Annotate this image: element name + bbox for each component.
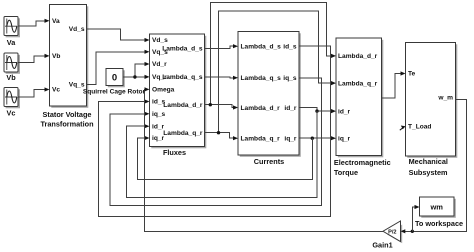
svg-text:wm: wm — [429, 203, 443, 212]
svg-text:Va: Va — [52, 18, 60, 25]
wire constant to Vd_r / Vq_r — [123, 64, 145, 77]
source block Va — [4, 17, 20, 47]
feedback wire id_s — [98, 46, 330, 216]
svg-text:Vb: Vb — [6, 73, 16, 82]
block wm To workspace — [415, 197, 463, 228]
block Fluxes — [150, 34, 207, 157]
wire w_m to gain and to workspace — [405, 99, 467, 231]
svg-text:Lambda_d_r: Lambda_d_r — [338, 53, 378, 60]
svg-text:iq_s: iq_s — [152, 111, 166, 118]
svg-text:0: 0 — [112, 73, 117, 84]
wire Lambda_d_r (to Currents and over top to EM Torque) — [205, 105, 234, 108]
arrowhead into gain input — [401, 229, 406, 233]
source block Vc — [4, 88, 20, 118]
svg-text:Omega: Omega — [152, 87, 175, 94]
wire Va — [18, 21, 45, 26]
svg-text:Gain1: Gain1 — [372, 241, 392, 250]
svg-text:Lambda_q_s: Lambda_q_s — [241, 75, 282, 82]
wire id_r (to EM Torque and feedback) — [299, 108, 332, 112]
svg-text:Subsystem: Subsystem — [409, 168, 448, 177]
wire Lambda_q_s — [205, 77, 234, 78]
svg-text:Vc: Vc — [52, 87, 60, 94]
svg-text:Fluxes: Fluxes — [163, 148, 186, 157]
svg-text:Lambda_q_r: Lambda_q_r — [163, 130, 203, 137]
svg-text:Currents: Currents — [254, 157, 284, 166]
wire Vb — [18, 56, 45, 63]
svg-text:Squirrel Cage Rotor: Squirrel Cage Rotor — [83, 89, 146, 96]
svg-text:Lambda_d_s: Lambda_d_s — [241, 43, 282, 50]
wire Lambda_q_r (to Currents and over top to EM Torque) — [205, 133, 234, 139]
block Stator Voltage Transformation — [40, 5, 93, 129]
wire Te — [382, 74, 402, 99]
svg-text:Vc: Vc — [7, 108, 16, 117]
constant block 0 (Squirrel Cage Rotor) — [83, 69, 146, 96]
svg-text:Transformation: Transformation — [40, 120, 93, 129]
svg-text:To workspace: To workspace — [415, 219, 463, 228]
gain block Gain1 P/2 — [372, 221, 402, 250]
wire iq_r (to EM Torque and feedback) — [299, 137, 332, 139]
svg-text:Stator Voltage: Stator Voltage — [43, 110, 92, 119]
svg-text:Te: Te — [408, 71, 416, 78]
svg-text:id_s: id_s — [283, 43, 297, 50]
svg-text:Vq_s: Vq_s — [69, 82, 85, 89]
svg-text:Lambda_d_r: Lambda_d_r — [241, 105, 281, 112]
block Mechanical Subsystem — [406, 43, 458, 178]
block Currents — [238, 32, 301, 166]
svg-text:id_r: id_r — [284, 105, 297, 112]
unconnected T_Load port arrow — [400, 128, 403, 131]
svg-text:P/2: P/2 — [388, 230, 396, 236]
svg-text:Vb: Vb — [52, 53, 60, 60]
wire Lambda_d_s — [205, 46, 234, 48]
svg-text:Vd_r: Vd_r — [152, 61, 167, 68]
wire Vc — [18, 90, 45, 98]
svg-text:Vd_s: Vd_s — [152, 37, 168, 44]
svg-text:Lambda_q_s: Lambda_q_s — [162, 74, 203, 81]
svg-text:w_m: w_m — [437, 95, 453, 102]
svg-text:Lambda_d_s: Lambda_d_s — [162, 46, 203, 53]
svg-text:T_Load: T_Load — [408, 124, 431, 131]
wire gain output to Omega — [144, 89, 383, 231]
source block Vb — [4, 53, 20, 82]
svg-text:Lambda_d_r: Lambda_d_r — [163, 102, 203, 109]
svg-text:Vd_s: Vd_s — [69, 26, 85, 33]
svg-text:iq_r: iq_r — [284, 135, 297, 142]
svg-text:Electromagnetic: Electromagnetic — [334, 158, 391, 167]
svg-text:Torque: Torque — [334, 168, 358, 177]
wire Vd_s — [87, 29, 146, 40]
svg-text:Va: Va — [7, 38, 16, 47]
svg-text:id_r: id_r — [338, 108, 351, 115]
feedback wire iq_s — [110, 78, 321, 206]
svg-text:iq_r: iq_r — [338, 135, 351, 142]
svg-text:iq_s: iq_s — [283, 75, 297, 82]
block Electromagnetic Torque — [334, 38, 391, 177]
svg-text:Lambda_q_r: Lambda_q_r — [338, 80, 378, 87]
wire Vq_s — [87, 52, 146, 85]
svg-text:Lambda_q_r: Lambda_q_r — [241, 135, 281, 142]
svg-text:Mechanical: Mechanical — [409, 157, 448, 166]
